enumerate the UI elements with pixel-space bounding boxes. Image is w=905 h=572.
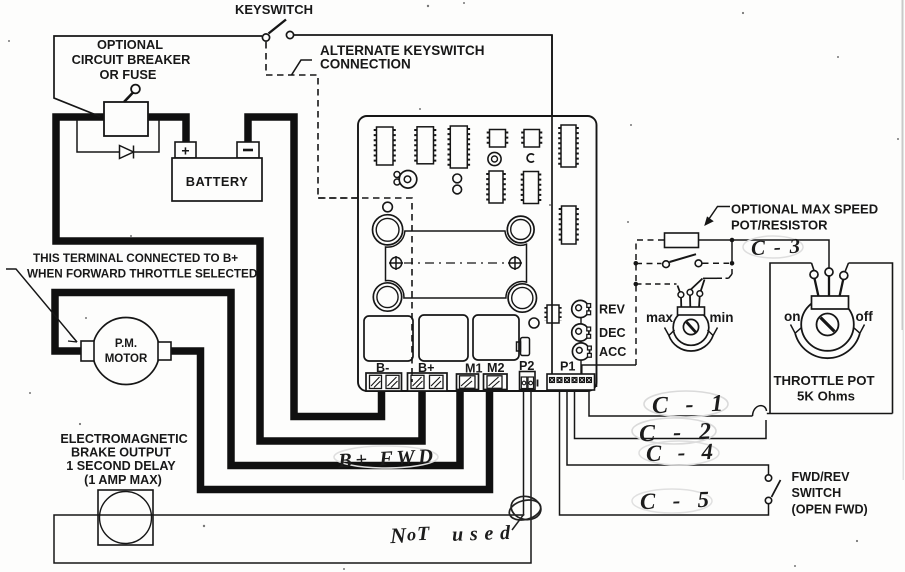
IC U7: [522, 172, 540, 204]
wire C-2 from P1 to throttle pot box corner: [575, 390, 767, 439]
svg-text:on: on: [784, 309, 801, 324]
capacitor pair below U3: [453, 174, 462, 194]
svg-text:ELECTROMAGNETIC: ELECTROMAGNETIC: [60, 432, 187, 446]
power device module Q2: [419, 315, 468, 361]
wire: motor right terminal to PCB M2 terminal (thick): [168, 351, 490, 490]
handwritten note B+ FWD with halo: [334, 446, 438, 473]
resistor R1 optional max speed: [665, 233, 699, 248]
svg-text:MOTOR: MOTOR: [105, 353, 148, 365]
trimmer REV: [572, 300, 591, 317]
svg-text:CIRCUIT BREAKER: CIRCUIT BREAKER: [72, 52, 191, 67]
svg-text:min: min: [710, 310, 734, 325]
wire: B+ feed from circuit breaker to PCB B+ terminal (thick): [56, 117, 422, 441]
electrolytic capacitor C3: [373, 283, 401, 311]
battery B1: [172, 142, 262, 201]
node B junction at switch output: [730, 261, 735, 266]
throttle pot enclosure box wiring: [767, 263, 893, 414]
wire: battery - terminal to PCB B- terminal (thick): [248, 117, 382, 417]
pot body: [673, 310, 709, 346]
wire: circuit breaker to battery + terminal (thick): [147, 117, 186, 146]
power device module Q1: [364, 316, 413, 361]
pot middle lead: [690, 279, 703, 308]
svg-text:(1 AMP MAX): (1 AMP MAX): [84, 473, 162, 487]
svg-text:REV: REV: [599, 303, 625, 317]
max/min speed pot VR2: [636, 266, 732, 351]
controller PCB outline: [358, 116, 597, 391]
svg-text:DEC: DEC: [599, 326, 626, 340]
motor M (P.M. MOTOR): [81, 318, 171, 385]
throttle pot VR3: [791, 268, 865, 358]
handwritten note C-2 with halo: [632, 418, 716, 447]
small cap right of Q3: [529, 318, 539, 328]
pointer to alternate keyswitch wire: [292, 60, 313, 75]
small component right of Q3: [517, 338, 530, 356]
FWD/REV switch SW3: [765, 475, 780, 504]
wire C-3 to throttle pot wiper: [732, 240, 829, 268]
svg-text:FWD/REV: FWD/REV: [792, 470, 851, 484]
wire: brake loop to P2 connector (thin): [54, 389, 531, 563]
svg-text:P.M.: P.M.: [115, 338, 137, 350]
IC U6: [488, 171, 505, 203]
electrolytic capacitor C1: [373, 215, 403, 245]
leads: [815, 279, 819, 297]
trimmer ACC: [572, 343, 591, 360]
svg-text:C-5: C-5: [640, 487, 710, 514]
transistor can below U4: [488, 152, 501, 165]
overlay: keyswitch wire over PCB: [551, 35, 553, 374]
wire: alternate keyswitch connection (dashed) to B+ terminal: [266, 42, 412, 383]
IC U2: [416, 127, 436, 164]
max speed bypass switch SW2: [636, 254, 729, 267]
IC U3: [449, 126, 469, 168]
electrolytic capacitor C4: [508, 284, 536, 312]
node A junction of resistor and C-3: [730, 238, 735, 243]
terminal block B-: [366, 373, 402, 391]
wire: keyswitch line from breaker input up and across to PCB P1 pin1 (thin): [54, 35, 552, 374]
handwritten note C-3 with halo: [743, 234, 803, 261]
electromagnetic brake coil: [98, 490, 153, 545]
scan edge shadow: [902, 0, 904, 330]
diode D1 bypass loop around breaker: [77, 120, 159, 159]
svg-text:T: T: [417, 523, 431, 545]
handwritten note C-1 with halo: [644, 391, 728, 419]
wire resistor to junction: [699, 239, 733, 241]
wire C-5 from P1 to FWD/REV switch: [560, 390, 769, 515]
scribble circle around unused P2 wires: [507, 494, 543, 523]
svg-text:5K Ohms: 5K Ohms: [797, 389, 855, 404]
svg-text:max: max: [646, 310, 674, 325]
trimmer VR1 on board: [394, 171, 417, 189]
svg-text:BRAKE OUTPUT: BRAKE OUTPUT: [71, 446, 171, 460]
IC U5: [523, 130, 542, 148]
svg-text:M1: M1: [465, 362, 483, 376]
wire between junctions: [731, 240, 733, 263]
small circle near dashed corner: [383, 202, 393, 212]
IC U1: [375, 127, 395, 165]
rotation arc with arrows: [669, 336, 713, 352]
terminal M1: [457, 374, 479, 390]
svg-text:ACC: ACC: [599, 345, 626, 359]
svg-text:OR FUSE: OR FUSE: [100, 67, 157, 82]
dashed rail of optional max speed pot: [636, 240, 665, 365]
open ring below U5: [527, 154, 534, 162]
keyswitch SW1: [262, 20, 293, 42]
pointer from NOT used to scribble: [512, 514, 524, 530]
rotation arc with arrows: [795, 333, 860, 358]
connector P2: [520, 372, 538, 390]
svg-text:1 SECOND DELAY: 1 SECOND DELAY: [66, 459, 176, 473]
circuit breaker CB1 body: [104, 85, 148, 136]
pointer to resistor: [705, 207, 730, 226]
wire: motor left terminal to PCB M1 terminal (thick): [55, 293, 460, 466]
electrolytic capacitor C2: [507, 216, 534, 243]
svg-text:P1: P1: [560, 360, 575, 374]
svg-text:C-1: C-1: [652, 391, 724, 419]
terminal M2: [484, 374, 508, 390]
svg-text:off: off: [856, 309, 874, 324]
IC U8 top right strip: [560, 125, 578, 167]
svg-text:C-3: C-3: [750, 234, 800, 261]
small DIP IC U10 near P2: [546, 305, 561, 323]
svg-text:POT/RESISTOR: POT/RESISTOR: [731, 218, 828, 233]
svg-text:P2: P2: [519, 359, 534, 373]
svg-text:+: +: [181, 143, 189, 159]
trimmer DEC: [572, 324, 591, 341]
svg-text:o: o: [407, 524, 417, 544]
IC U4: [488, 130, 507, 148]
handwritten note C-5 with halo: [632, 487, 712, 514]
node on rail at switch row: [634, 261, 639, 266]
svg-text:M2: M2: [487, 361, 505, 375]
wire pot leads to junction B: [703, 277, 717, 279]
wire C-3 rail from P1 pin5 to max speed network: [582, 365, 636, 374]
svg-text:N: N: [389, 523, 408, 549]
handwritten note C-4 with halo: [639, 439, 719, 466]
svg-text:(OPEN FWD): (OPEN FWD): [792, 503, 868, 517]
pot left lead: [678, 286, 682, 308]
svg-text:B-: B-: [376, 361, 389, 375]
svg-text:CONNECTION: CONNECTION: [320, 57, 411, 72]
svg-text:C-4: C-4: [646, 439, 714, 466]
overlay: alternate keyswitch dashed wire over PCB to B+: [318, 198, 412, 382]
wire C-1 from P1 to throttle pot box: [589, 390, 767, 416]
pointer arrow from note to motor left terminal: [6, 269, 77, 342]
svg-text:WHEN FORWARD THROTTLE SELECTED: WHEN FORWARD THROTTLE SELECTED: [27, 268, 257, 281]
pot right lead: [699, 280, 705, 308]
node on rail at pot row: [634, 282, 639, 287]
svg-text:THIS TERMINAL CONNECTED TO B+: THIS TERMINAL CONNECTED TO B+: [33, 252, 238, 265]
svg-text:used: used: [452, 522, 512, 546]
IC U9 right strip: [560, 206, 578, 244]
power device module Q3: [473, 315, 519, 360]
connector P1: [547, 374, 597, 390]
svg-text:B+: B+: [418, 361, 434, 375]
svg-text:OPTIONAL MAX SPEED: OPTIONAL MAX SPEED: [731, 202, 878, 217]
svg-text:KEYSWITCH: KEYSWITCH: [235, 2, 313, 17]
dashed link rail to pot left lead: [636, 283, 677, 285]
terminal block B+: [408, 373, 448, 391]
svg-text:SWITCH: SWITCH: [792, 486, 842, 500]
svg-text:THROTTLE POT: THROTTLE POT: [773, 373, 874, 388]
wire from trimmers down to P1 pin: [580, 310, 582, 374]
svg-text:BATTERY: BATTERY: [186, 174, 249, 189]
heatsink bracket plate: [386, 231, 527, 298]
wire C-4 from P1 to FWD/REV switch: [567, 390, 769, 475]
body: [801, 298, 854, 351]
svg-text:OPTIONAL: OPTIONAL: [97, 37, 163, 52]
